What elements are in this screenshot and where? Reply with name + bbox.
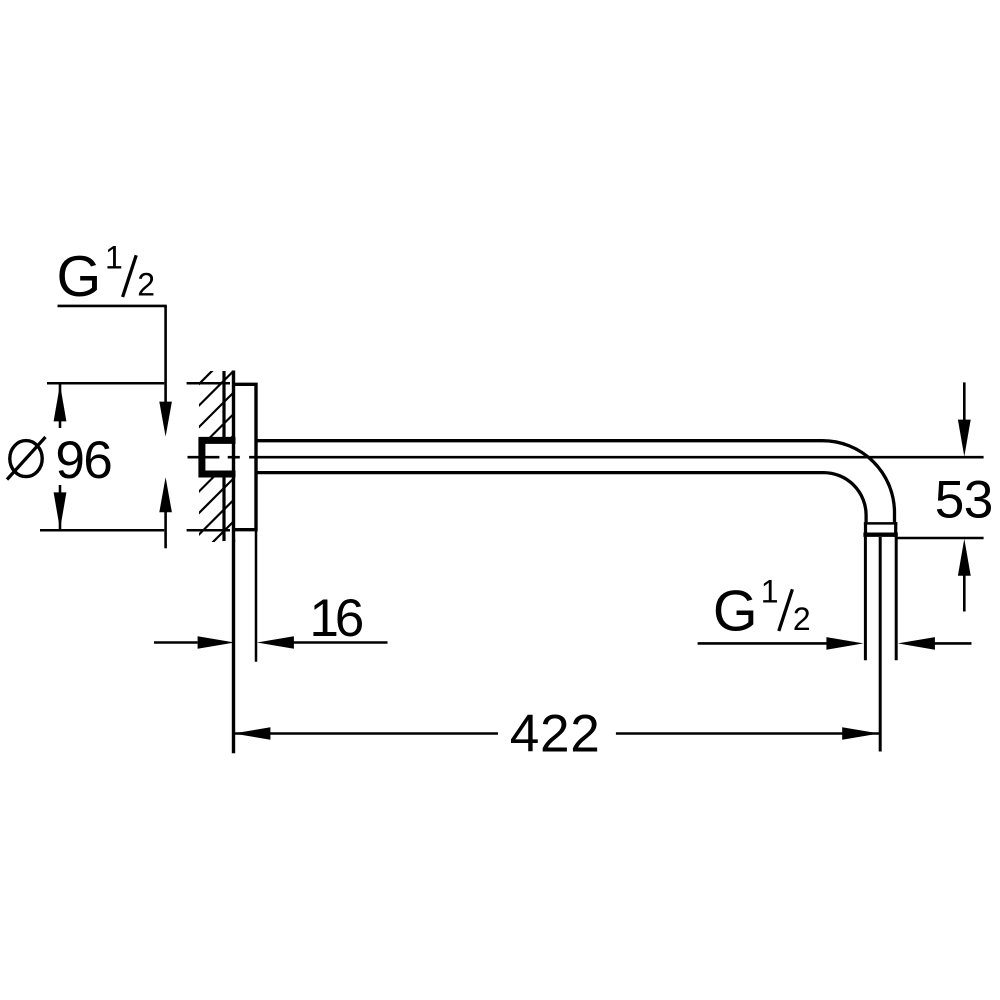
422 dimension line left segment: [234, 732, 498, 735]
outlet collar top line: [864, 522, 897, 525]
outlet vertical centerline: [879, 537, 882, 752]
G1/2 leader down arrow: [159, 402, 172, 437]
G1/2 bottom left arrow (points right): [826, 637, 863, 650]
outlet collar left edge: [864, 522, 867, 537]
threaded nipple G1/2 (wall connection): [202, 440, 236, 474]
16 right arrow (points left): [257, 636, 294, 649]
horizontal centerline dash 1: [188, 456, 220, 459]
svg-text:96: 96: [55, 431, 113, 490]
G1/2 top label underline: [58, 305, 167, 308]
16 right shaft: [294, 641, 388, 644]
O96 bottom extension line left part: [40, 529, 164, 532]
outlet collar right edge: [894, 522, 897, 537]
53 dimension upper shaft: [963, 382, 966, 420]
O96 bottom extension line right part: [187, 529, 230, 532]
horizontal centerline dash 2: [228, 456, 240, 459]
svg-text:1: 1: [761, 573, 779, 609]
G1/2 leader vertical: [164, 306, 167, 404]
53 upper arrow (points down): [958, 420, 971, 457]
outlet pipe right edge below collar: [895, 537, 898, 660]
O96 lower arrow (points down): [54, 492, 67, 529]
53 dimension lower shaft: [963, 575, 966, 611]
wall surface line A: [222, 371, 225, 541]
svg-text:1: 1: [105, 240, 123, 276]
svg-text:G: G: [713, 579, 758, 643]
16 dimension left outside shaft: [154, 641, 198, 644]
shower arm pipe top edge with outer bend: [256, 441, 895, 524]
G1/2 top label text: [57, 240, 155, 310]
flange (escutcheon, side view): [234, 384, 257, 529]
G1/2 bottom right arrow (points left): [898, 637, 935, 650]
G1/2 leader lower shaft: [164, 512, 167, 549]
wall line B / left extension line: [232, 371, 235, 754]
O96 upper arrow (points up): [54, 384, 67, 421]
horizontal centerline long segment / 53 top extension: [249, 456, 984, 459]
16 left arrow (points right): [198, 636, 235, 649]
53 lower arrow (points up): [958, 539, 971, 576]
422 dimension line right segment: [616, 732, 879, 735]
flange right edge extension line: [255, 530, 258, 662]
svg-text:2: 2: [137, 267, 155, 303]
O96 top extension line left part: [47, 382, 164, 385]
shower arm pipe bottom edge with inner bend: [256, 473, 866, 524]
G1/2 leader up arrow: [159, 477, 172, 512]
G1/2 bottom dimension shaft left: [698, 642, 827, 645]
outlet pipe left edge below collar: [864, 537, 867, 660]
G1/2 bottom label text: [713, 573, 811, 643]
O96 dimension upper shaft: [59, 385, 62, 429]
svg-text:2: 2: [793, 601, 811, 637]
422 right arrow (points right): [842, 727, 879, 740]
svg-text:53: 53: [935, 470, 994, 529]
svg-text:422: 422: [510, 704, 600, 763]
wall hatching: [23, 360, 417, 560]
O96 dimension lower shaft: [59, 485, 62, 530]
outlet collar white fill: [864, 522, 897, 537]
svg-text:16: 16: [309, 589, 364, 648]
svg-text:G: G: [57, 245, 102, 309]
O96 top extension line right part: [187, 382, 230, 385]
422 left arrow (points left): [233, 727, 270, 740]
label O96: [10, 441, 42, 477]
G1/2 bottom shaft right: [935, 642, 972, 645]
53 bottom extension line: [897, 537, 983, 540]
outlet collar bottom line (thick): [863, 533, 897, 537]
